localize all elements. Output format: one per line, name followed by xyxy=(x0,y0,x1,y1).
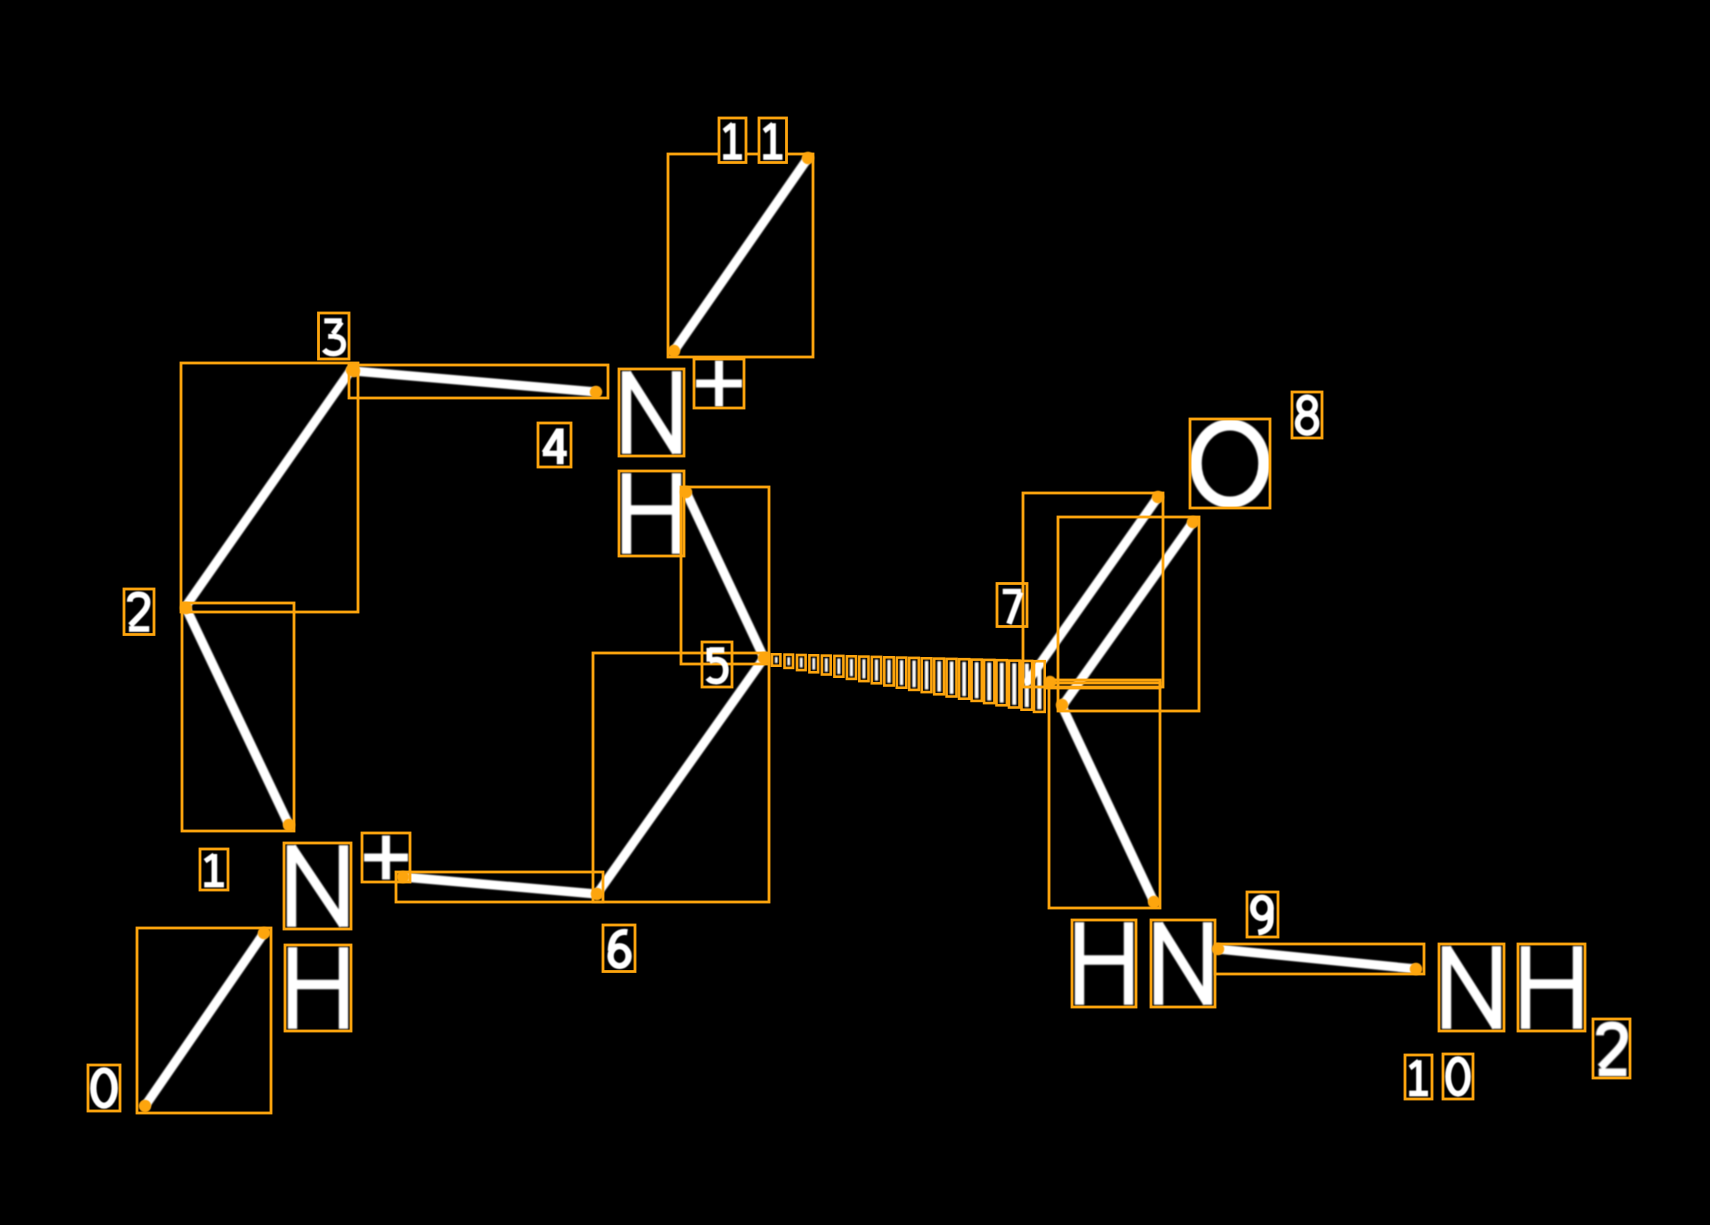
box bond 7 axis xyxy=(1047,680,1160,688)
atom index 0 xyxy=(93,1070,114,1105)
atom index 1 xyxy=(204,854,224,885)
node N4 charge + xyxy=(696,380,742,388)
atom index 2 xyxy=(129,594,149,629)
atom index 5 xyxy=(708,648,726,682)
dot bond6 at N1 xyxy=(397,871,409,883)
atom index 11 digit 1b xyxy=(763,123,782,157)
box bond 11: N4-C11 xyxy=(668,154,813,357)
dot atom C7 xyxy=(1056,699,1068,711)
box N4 glyph H xyxy=(619,471,684,556)
node N9 label N xyxy=(1154,922,1163,1005)
box O8 glyph O xyxy=(1190,419,1270,508)
wire bond C7-N9 xyxy=(1062,706,1154,902)
node O8 label O xyxy=(1196,425,1264,503)
box double bond line b xyxy=(1058,517,1199,711)
box index 0 xyxy=(88,1065,120,1111)
dot hash end at C7 xyxy=(1044,676,1056,688)
wire bond N4-C11 xyxy=(674,158,808,351)
box index 2 xyxy=(124,589,154,635)
dot bond910 at N9 xyxy=(1212,943,1224,955)
box bond 6: C6-N1 xyxy=(396,872,603,902)
box N10 glyph H xyxy=(1518,944,1585,1031)
dot bond0 at N1 xyxy=(258,927,270,939)
dot atom C2 a xyxy=(180,602,192,614)
atom index 10 digit 1 xyxy=(1409,1060,1428,1093)
node N10 label N xyxy=(1442,946,1451,1029)
wire bond C2-C3 xyxy=(186,370,351,606)
dot atom C6 xyxy=(591,888,603,900)
dot bond910 at N10 xyxy=(1410,963,1422,975)
box N4 charge + xyxy=(694,359,744,408)
atom index 3 xyxy=(324,321,343,354)
atom index 11 digit 1a xyxy=(723,123,742,157)
dot atom C5 xyxy=(758,652,770,664)
hashed wedge bond C5-C7 xyxy=(775,657,778,663)
node N4 label H xyxy=(622,473,631,554)
box index 7 xyxy=(997,584,1027,627)
atom index 6 xyxy=(611,932,629,966)
box index 9 xyxy=(1247,892,1278,937)
wire bond C3-N4 xyxy=(354,371,596,392)
box N1 glyph N xyxy=(284,843,351,929)
node N4 label N xyxy=(622,371,631,454)
box bond 3: C3-N4 xyxy=(349,365,608,398)
dot atom C11 xyxy=(802,152,814,164)
box bond 2: C2-C3 xyxy=(181,363,358,612)
box N10 glyph N xyxy=(1439,944,1504,1031)
box bond 4: N4-C5 xyxy=(681,487,769,664)
box index 10 digit 1 xyxy=(1405,1055,1432,1099)
atom index 7 xyxy=(1003,591,1021,623)
wire bond N1-C2 xyxy=(186,608,289,825)
dot atom C3 b xyxy=(348,365,360,377)
atom index 8 xyxy=(1298,397,1317,433)
box index 1 xyxy=(200,849,228,890)
node N1 charge + xyxy=(364,854,408,862)
box index 3 xyxy=(319,313,350,359)
node N1 label N xyxy=(287,845,296,927)
dot bond11 at N4 xyxy=(668,345,680,357)
wire bond C0-N1 xyxy=(145,933,264,1106)
dot atom C3 a xyxy=(346,364,358,376)
wire double bond C7=O8 line a xyxy=(1028,497,1158,681)
dot bond79 at N9 xyxy=(1148,896,1160,908)
box bond 1: N1-C2 xyxy=(182,603,294,831)
box index 8 xyxy=(1292,392,1322,438)
box index 10 digit 0 xyxy=(1443,1054,1473,1099)
box double bond line a xyxy=(1023,493,1163,687)
box N4 glyph N xyxy=(619,369,684,456)
dot double bond b at O8 xyxy=(1187,516,1199,528)
box index 5 xyxy=(702,642,732,687)
box N9 glyph H xyxy=(1072,920,1136,1007)
box index 4 xyxy=(538,423,571,467)
box bond 5: C5-C6 xyxy=(593,653,769,902)
dot bond4 at N4 xyxy=(680,486,692,498)
node N1 label H xyxy=(288,947,297,1029)
node N10 subscript 2 xyxy=(1599,1025,1627,1072)
atom index 9 xyxy=(1253,898,1271,933)
box N10 subscript 2 xyxy=(1593,1019,1630,1078)
wire bond C6-N1 xyxy=(403,877,596,894)
dot bond3 at N4 xyxy=(590,386,602,398)
box bond N9-N10 xyxy=(1215,944,1424,974)
wire double bond C7=O8 line b xyxy=(1063,522,1193,705)
box bond C7-N9 xyxy=(1049,683,1160,908)
atom index 4 xyxy=(543,428,567,464)
box N1 charge + xyxy=(362,833,410,882)
box index 11 digit 1b xyxy=(759,118,787,163)
box N9 glyph N xyxy=(1151,920,1215,1007)
dot atom C0 xyxy=(139,1100,151,1112)
node N10 label H xyxy=(1521,946,1530,1029)
box bond 0: C0-N1 xyxy=(137,928,271,1113)
wire bond N9-N10 xyxy=(1218,949,1416,969)
dot double bond a at O8 xyxy=(1152,491,1164,503)
box N1 glyph H xyxy=(285,945,351,1031)
dot bond1 at N1 xyxy=(283,819,295,831)
wire bond N4-C5 xyxy=(686,492,764,658)
atom index 10 digit 0 xyxy=(1448,1059,1468,1093)
wire bond C5-C6 xyxy=(597,658,764,894)
box index 11 digit 1a xyxy=(719,118,746,163)
boxes hashed wedge dashes xyxy=(772,654,780,665)
node N9 label H xyxy=(1075,922,1084,1005)
box index 6 xyxy=(603,925,635,972)
